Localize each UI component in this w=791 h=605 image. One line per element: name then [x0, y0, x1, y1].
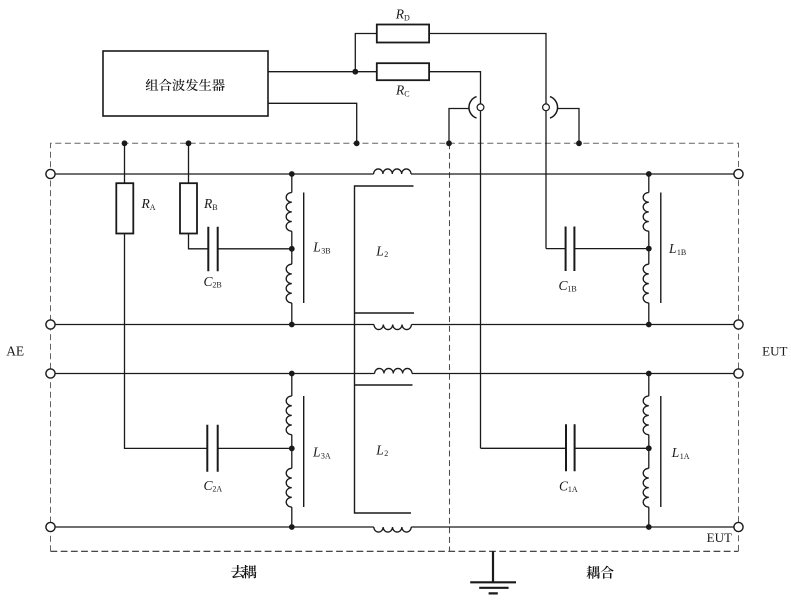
terminal EUT line1: [734, 169, 743, 178]
label EUT right: [762, 343, 787, 358]
inductor L1b upper winding: [643, 193, 649, 232]
wire C1b to L1b tap: [574, 248, 648, 250]
inductor L2 core: [355, 186, 415, 513]
node L3b bottom: [289, 322, 295, 328]
svg-text:1B: 1B: [677, 248, 686, 257]
wire L3a top: [291, 374, 293, 397]
wire connector P1 tap: [449, 109, 469, 144]
label coupling section: [587, 566, 614, 579]
wire Ra to C2a: [125, 234, 208, 449]
wire L1a top: [648, 374, 650, 397]
wire L1b bottom: [648, 303, 650, 325]
wire generator return: [268, 103, 357, 143]
wire C1b left lead: [546, 248, 566, 250]
inductor L1b core: [660, 193, 662, 304]
terminal AE line4: [46, 522, 55, 531]
node generator return on enclosure: [354, 140, 360, 146]
capacitor C1a: [566, 424, 575, 471]
wire Ra top lead: [124, 143, 126, 183]
connector P1 circle: [477, 104, 484, 111]
resistor Ra: [116, 183, 133, 233]
label L1a: [671, 445, 690, 461]
svg-text:A: A: [150, 203, 156, 212]
inductor L3a lower winding: [286, 468, 292, 507]
node L3a top: [289, 371, 295, 377]
node P1 tap on enclosure: [446, 140, 452, 146]
node P2 tap on enclosure: [576, 140, 582, 146]
connector P2 circle: [543, 104, 550, 111]
terminal EUT line4: [734, 522, 743, 531]
node L3b top: [289, 171, 295, 177]
label L3a: [312, 445, 331, 461]
terminal AE line2: [46, 320, 55, 329]
wire L1a bottom: [648, 507, 650, 527]
svg-text:EUT: EUT: [707, 530, 732, 545]
label L1b: [668, 241, 686, 257]
wire L3b middle: [291, 231, 293, 264]
wire L1a middle: [648, 435, 650, 469]
ground: [470, 551, 516, 593]
svg-text:3A: 3A: [321, 451, 331, 460]
wire generator to node J1: [268, 71, 377, 73]
label L3b: [312, 240, 330, 256]
svg-text:1A: 1A: [680, 452, 690, 461]
wire line4 left segment: [55, 526, 374, 528]
divider between decoupling and coupling sections (dashed): [449, 143, 451, 551]
wire connector P2 tap: [558, 109, 579, 144]
node L1a bottom: [646, 524, 652, 530]
connector P1 arc: [469, 97, 477, 119]
wire C2a to L3a tap: [218, 447, 292, 449]
resistor Rc: [377, 63, 429, 80]
label EUT bottom: [707, 530, 732, 545]
node L1b tap: [646, 246, 652, 252]
inductor L2 winding on line2: [374, 325, 411, 330]
wire line1 right segment: [411, 173, 734, 175]
node Rb on enclosure: [186, 140, 192, 146]
inductor L2 winding on line1: [374, 169, 411, 174]
inductor L1b lower winding: [643, 264, 649, 303]
node Ra on enclosure: [122, 140, 128, 146]
label Rd: [395, 7, 410, 23]
inductor L3b lower winding: [286, 264, 292, 303]
wire Rd to connector P2: [429, 34, 546, 249]
label L2 lower: [375, 443, 388, 459]
svg-text:B: B: [212, 203, 217, 212]
svg-text:2B: 2B: [212, 281, 221, 290]
svg-text:L: L: [668, 241, 677, 256]
resistor Rb: [180, 183, 197, 233]
wire Rb top lead: [188, 143, 190, 183]
label L2 upper: [375, 243, 388, 259]
svg-text:L: L: [375, 243, 384, 258]
svg-text:AE: AE: [6, 343, 24, 358]
svg-text:2: 2: [384, 449, 388, 458]
svg-text:EUT: EUT: [762, 343, 787, 358]
node L3b tap: [289, 246, 295, 252]
label C2a: [204, 478, 223, 494]
node L1b top: [646, 171, 652, 177]
wire C2b to L3b tap: [218, 248, 292, 250]
wire line2 right segment: [411, 324, 734, 326]
svg-text:1B: 1B: [567, 285, 576, 294]
inductor L2 winding on line4: [374, 527, 411, 532]
inductor L3a upper winding: [286, 396, 292, 435]
wire L1b top: [648, 174, 650, 193]
label C2b: [204, 274, 222, 290]
wire Rc to connector P1: [429, 72, 480, 449]
resistor Rd: [377, 25, 429, 43]
wire C1a left lead: [481, 447, 567, 449]
label Rb: [203, 196, 218, 212]
node L1a tap: [646, 445, 652, 451]
node L3a tap: [289, 446, 295, 452]
wire line4 right segment: [411, 526, 734, 528]
inductor L1a core: [660, 396, 662, 507]
inductor L1a lower winding: [643, 468, 649, 507]
inductor L3b upper winding: [286, 193, 292, 232]
svg-text:3B: 3B: [321, 246, 330, 255]
wire C1a to L1a tap: [575, 447, 649, 449]
inductor L2 winding on line3: [375, 368, 412, 373]
terminal AE line3: [46, 369, 55, 378]
connector P2 arc: [550, 97, 558, 119]
wire line3 left segment: [55, 373, 375, 375]
wire line3 right segment: [412, 373, 734, 375]
svg-text:1A: 1A: [568, 485, 578, 494]
svg-text:L: L: [312, 445, 321, 460]
svg-text:2: 2: [384, 250, 388, 259]
decoupling/coupling network enclosure (dashed): [51, 143, 739, 551]
inductor L1a upper winding: [643, 396, 649, 435]
node L1a top: [646, 371, 652, 377]
wire L3b top: [291, 174, 293, 193]
capacitor C1b: [566, 227, 575, 272]
label Ra: [141, 196, 156, 212]
node L1b bottom: [646, 322, 652, 328]
wire Rb to C2b: [189, 234, 209, 249]
inductor L3a core: [303, 396, 305, 507]
node J1: [352, 69, 358, 75]
wire L1b middle: [648, 231, 650, 264]
label Rc: [395, 83, 410, 99]
wire line1 left segment: [55, 173, 374, 175]
label decoupling section: [231, 565, 256, 579]
svg-text:L: L: [375, 443, 384, 458]
label C1b: [559, 278, 577, 294]
svg-text:L: L: [312, 240, 321, 255]
combination wave generator U1: [103, 51, 268, 116]
wire L3a middle: [291, 435, 293, 469]
wire J1 to Rd: [355, 34, 377, 72]
capacitor C2a: [207, 425, 217, 472]
terminal AE line1: [46, 169, 55, 178]
wire L3a bottom: [291, 507, 293, 527]
wire L3b bottom: [291, 303, 293, 325]
svg-text:2A: 2A: [212, 485, 222, 494]
svg-text:C: C: [404, 89, 409, 98]
svg-text:L: L: [671, 445, 680, 460]
terminal EUT line2: [734, 320, 743, 329]
node L3a bottom: [289, 524, 295, 530]
terminal EUT line3: [734, 369, 743, 378]
label AE: [6, 343, 24, 358]
label C1a: [559, 479, 578, 495]
inductor L3b core: [303, 193, 305, 304]
svg-text:D: D: [404, 13, 410, 22]
capacitor C2b: [208, 227, 217, 271]
wire line2 left segment: [55, 324, 374, 326]
